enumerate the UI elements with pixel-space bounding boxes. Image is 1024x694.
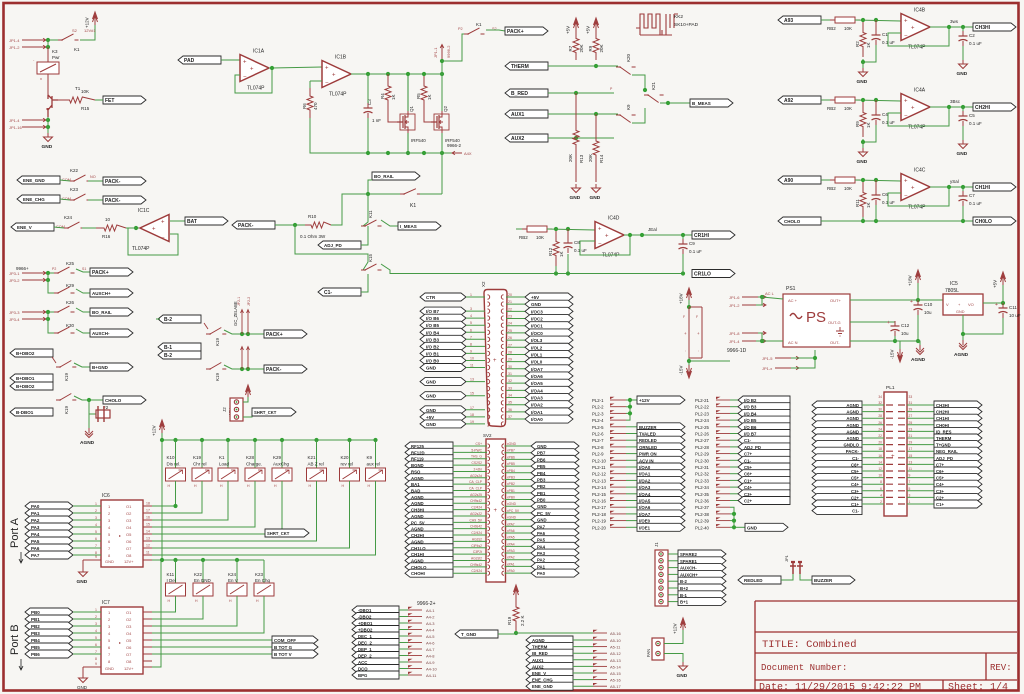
- net flag BA1 SV2 left row 7: [405, 480, 453, 488]
- svg-text:25: 25: [508, 329, 512, 333]
- svg-text:H: H: [368, 484, 371, 488]
- net flag ENE_V bottom list: [526, 669, 573, 677]
- svg-text:+: +: [494, 508, 498, 514]
- net flag ADJ_PD mid: [318, 241, 361, 249]
- svg-text:7: 7: [95, 544, 97, 548]
- net flag PA4: [25, 530, 73, 538]
- svg-text:C1-: C1-: [324, 290, 332, 296]
- net flag I/OA7 X2 right row 11: [506, 368, 525, 370]
- svg-text:SK10+PAD: SK10+PAD: [674, 22, 699, 28]
- wire input node: [821, 99, 830, 101]
- svg-text:K21: K21: [651, 81, 656, 90]
- svg-text:4: 4: [95, 523, 97, 527]
- svg-text:COM_OFF: COM_OFF: [274, 638, 296, 643]
- net flag I/OA3 PL2 col1: [626, 486, 637, 488]
- svg-text:A4-7: A4-7: [426, 647, 435, 652]
- svg-text:R6: R6: [302, 103, 307, 109]
- pin stub JP1-2: [22, 45, 46, 49]
- svg-text:PB3: PB3: [31, 631, 40, 636]
- svg-text:SPARE1: SPARE1: [680, 559, 697, 564]
- svg-text:B TOT V: B TOT V: [274, 652, 292, 657]
- ground GND under R13: [572, 184, 581, 193]
- svg-text:PACK+: PACK+: [92, 270, 109, 276]
- pin stub JP5-9: [593, 685, 607, 687]
- supply +12V top-left: [93, 12, 98, 25]
- net flag BGND SV2 left row 4: [405, 461, 453, 469]
- svg-text:5: 5: [95, 636, 97, 640]
- svg-text:0.1 uF: 0.1 uF: [574, 248, 587, 253]
- IC7 long output wires to flags: [152, 639, 272, 641]
- box resistor RB2 10K ch A92: [835, 97, 855, 103]
- svg-text:JP1-4: JP1-4: [729, 339, 740, 344]
- net flag I/O B4 PL2 col2: [730, 412, 738, 414]
- net flag I/OA3 X2 right row 15: [506, 397, 525, 399]
- wire R11 C6 to rail: [862, 217, 864, 221]
- wire R10 to K11: [331, 194, 368, 225]
- switch K1 top: [464, 28, 485, 34]
- svg-text:8: 8: [95, 657, 97, 661]
- svg-text:PA3: PA3: [31, 525, 40, 530]
- svg-text:En Chg: En Chg: [255, 578, 271, 583]
- net flag CH0LO right: [973, 217, 1016, 225]
- net flag I/O B6 X2 left row 4: [420, 314, 466, 322]
- net flag BUZZER PL2 col1: [626, 426, 637, 428]
- svg-text:O2: O2: [126, 511, 132, 516]
- svg-text:9966-1D: 9966-1D: [727, 348, 747, 354]
- net flag ENE_CHG bottom list: [526, 676, 573, 684]
- net flag C2+ PL1 right row 15: [907, 496, 934, 498]
- net flag B-2 J1: [668, 580, 678, 582]
- net flag GND X2 right row 2: [506, 303, 525, 305]
- bottom rail of driver stage: [310, 118, 452, 153]
- svg-text:AG2s25: AG2s25: [470, 493, 482, 497]
- svg-text:IC7: IC7: [102, 600, 110, 606]
- capacitor C4 0.1uF: [875, 110, 877, 115]
- svg-text:3Bsc: 3Bsc: [950, 99, 961, 104]
- resistor R12: [553, 231, 559, 266]
- svg-text:7: 7: [909, 480, 911, 484]
- net flag C6+ PL2 col2: [730, 473, 738, 475]
- capacitor C11 10uF: [1002, 303, 1004, 308]
- relay coil K20 rev rel: [347, 438, 351, 442]
- wire ACC to stub: [399, 661, 408, 663]
- svg-text:O3: O3: [126, 624, 132, 629]
- IC6 output pin 7: [143, 547, 152, 549]
- net flag PB2 SV2 right row 7: [505, 485, 532, 487]
- svg-text:P2: P2: [52, 267, 56, 271]
- net flag I/O B7 PL2 col2: [730, 433, 738, 435]
- svg-text:-15V: -15V: [890, 349, 895, 359]
- wire ACN to PS1: [762, 340, 783, 342]
- svg-text:I/OC1: I/OC1: [531, 324, 543, 329]
- net flag PA7: [25, 551, 73, 559]
- wire K1 row: [368, 193, 400, 195]
- svg-text:1 nF: 1 nF: [372, 118, 381, 123]
- svg-text:CR1HI: CR1HI: [694, 233, 710, 239]
- net flag I/OA4 X2 right row 14: [506, 389, 525, 391]
- svg-text:CA_CLP: CA_CLP: [469, 480, 483, 484]
- box resistor RB2 10K ch A93: [835, 17, 855, 23]
- wire input node: [821, 19, 830, 21]
- svg-text:14: 14: [146, 530, 150, 534]
- svg-text:RB2: RB2: [519, 235, 528, 240]
- title block outline: [755, 601, 1017, 691]
- svg-text:−: −: [243, 75, 247, 81]
- svg-text:H: H: [256, 599, 259, 603]
- net flag C7+ PL2 col2: [730, 453, 738, 455]
- capacitor C5 0.1uF: [962, 111, 964, 116]
- net flag RF125 SV2 left row 1: [405, 442, 453, 450]
- net flag I/O B2 PL2 col2: [730, 399, 738, 401]
- net flag COM_OFF: [272, 636, 318, 644]
- wire +18V down: [688, 300, 690, 307]
- wire DEC_1 to stub: [399, 635, 408, 637]
- svg-text:xPB4: xPB4: [507, 469, 515, 473]
- svg-text:13: 13: [909, 460, 913, 464]
- vertical to K11 contact: [363, 194, 368, 226]
- svg-text:PACK+: PACK+: [266, 332, 283, 338]
- svg-text:I/O B6: I/O B6: [426, 316, 440, 321]
- wire group2: [48, 312, 58, 333]
- svg-text:JP1-5: JP1-5: [762, 356, 773, 361]
- svg-text:FET: FET: [105, 98, 114, 104]
- svg-text:PAD: PAD: [184, 58, 195, 64]
- net flag C1+ PL1 left row 16: [812, 500, 862, 508]
- transistor Q2 IRF540: [431, 115, 439, 129]
- svg-text:T1: T1: [75, 86, 81, 91]
- net flag I/OA4 PL2 col1: [626, 493, 637, 495]
- svg-text:X2: X2: [481, 281, 486, 287]
- svg-text:12: 12: [146, 544, 150, 548]
- heatsink KK2: [636, 14, 678, 35]
- svg-text:PL2-37: PL2-37: [695, 505, 709, 510]
- svg-text:THERM: THERM: [511, 64, 529, 70]
- svg-text:PL2-8: PL2-8: [592, 445, 604, 450]
- svg-text:PACK+: PACK+: [507, 29, 524, 35]
- net flag PA5: [25, 537, 73, 545]
- net flag PA5 SV2 right row 15: [505, 539, 532, 541]
- svg-text:AG2st2: AG2st2: [471, 556, 482, 560]
- svg-text:xPA1: xPA1: [507, 562, 515, 566]
- net flag BAT: [185, 217, 228, 225]
- svg-text:3ws: 3ws: [950, 19, 959, 24]
- wire stub join: [48, 39, 60, 41]
- svg-text:18: 18: [146, 502, 150, 506]
- switch K30: [54, 327, 75, 333]
- net flag A92: [778, 96, 821, 104]
- svg-text:O5: O5: [126, 532, 132, 537]
- svg-text:+: +: [598, 227, 602, 233]
- svg-text:VO: VO: [968, 302, 974, 307]
- switch K15 lower: [361, 264, 382, 270]
- svg-text:B_RED: B_RED: [511, 91, 528, 97]
- svg-text:PACK-: PACK-: [266, 367, 282, 373]
- svg-text:xPB2: xPB2: [507, 482, 515, 486]
- vertical bus from K1 down through driver: [441, 61, 443, 111]
- svg-text:CIP4s2: CIP4s2: [471, 544, 482, 548]
- pin stub JP5-2: [593, 639, 607, 641]
- svg-text:I/OE1: I/OE1: [639, 525, 651, 530]
- ground GND channel input: [859, 68, 868, 77]
- relay coil K9 aux rel: [373, 438, 377, 442]
- net flag BO_RAIL mid: [372, 172, 420, 180]
- net flag I/OA5 PL2 col1: [626, 500, 637, 502]
- net flag CH3HI PL1 right row 1: [907, 404, 934, 406]
- net flag C2+ PL1 left row 15: [812, 493, 862, 501]
- svg-text:CH2HI: CH2HI: [975, 105, 991, 111]
- net flag PA3: [25, 523, 73, 531]
- svg-text:PL2-22: PL2-22: [695, 405, 709, 410]
- supply +18V left of PS1: [687, 288, 692, 301]
- IC6 output pin 2: [143, 512, 152, 514]
- wire K1 to vertical bus: [420, 193, 442, 195]
- relay coil K23 En Chg: [263, 560, 265, 583]
- net flag AGND SV2 left row 16: [405, 537, 453, 545]
- svg-text:12V+: 12V+: [124, 666, 134, 671]
- svg-text:R9: R9: [588, 45, 593, 51]
- net flag I/OC0 X2 right row 6: [506, 332, 525, 334]
- supply +12V relay bus: [160, 420, 165, 433]
- svg-text:JP3-3: JP3-3: [9, 310, 20, 315]
- wire PAD to IC1A: [221, 60, 240, 61]
- svg-text:C2/424: C2/424: [471, 531, 482, 535]
- svg-text:PB2: PB2: [31, 624, 40, 629]
- net flag I/O B5 X2 left row 5: [420, 321, 466, 329]
- svg-text:PL2-32: PL2-32: [695, 472, 709, 477]
- pin stub JP3-1: [22, 271, 46, 275]
- switch K19 mid upper: [206, 328, 226, 335]
- svg-text:12: 12: [878, 467, 882, 471]
- op-amp IC4D: [595, 222, 624, 249]
- svg-text:PL2-7: PL2-7: [592, 438, 604, 443]
- pin stub JP3-2: [22, 278, 46, 282]
- svg-text:+5V: +5V: [566, 26, 571, 34]
- net flag -DBO1 DBO list: [352, 606, 399, 614]
- resistor R16 10: [96, 225, 126, 231]
- svg-text:PL2-16: PL2-16: [592, 499, 606, 504]
- IC6 12V+ pin to bus: [143, 559, 152, 561]
- svg-text:GND: GND: [857, 79, 868, 85]
- svg-text:A5-10: A5-10: [610, 638, 621, 643]
- svg-text:JP1-8: JP1-8: [729, 331, 740, 336]
- svg-text:ENE_V: ENE_V: [17, 225, 32, 230]
- relay coil K1 Load: [226, 438, 230, 442]
- svg-text:I/OA0: I/OA0: [531, 417, 543, 422]
- svg-text:3: 3: [470, 307, 472, 311]
- net flag I/OA0 PL2 col1: [626, 466, 637, 468]
- net flag AGND SV2 left row 6: [405, 474, 453, 482]
- relay coil K29 AuxChg: [280, 438, 284, 442]
- svg-text:P2: P2: [458, 27, 463, 31]
- cap and resistor to ground: [863, 125, 876, 142]
- pin stub JP3-4: [22, 317, 46, 321]
- output wire: [930, 186, 973, 188]
- net flag DEC_2 DBO list: [352, 639, 399, 647]
- svg-text:+5V: +5V: [531, 295, 539, 300]
- net flag PAD: [178, 56, 221, 64]
- svg-text:+: +: [250, 67, 254, 73]
- svg-text:GND: GND: [42, 144, 53, 150]
- net flag PB6 SV2 right row 3: [505, 458, 532, 460]
- fuse F2: [89, 400, 96, 414]
- svg-text:GND: GND: [426, 394, 437, 399]
- capacitor C9 0.1uF: [682, 239, 684, 244]
- svg-text:xPB3: xPB3: [507, 475, 515, 479]
- svg-text:J1: J1: [654, 542, 659, 547]
- svg-text:K22: K22: [194, 572, 203, 577]
- svg-text:17: 17: [146, 509, 150, 513]
- svg-text:21: 21: [508, 300, 512, 304]
- pin stub JP1-2 AC: [742, 303, 766, 307]
- svg-text:PL2-36: PL2-36: [695, 499, 709, 504]
- svg-text:PA1: PA1: [31, 511, 40, 516]
- svg-text:0.1 uF: 0.1 uF: [882, 40, 895, 45]
- net flag T_GND: [455, 630, 498, 638]
- switch K21 select: [632, 75, 645, 90]
- net flag I/OE0 PL2 col1: [626, 520, 637, 522]
- net flag B+1 J1: [668, 601, 678, 603]
- svg-text:27: 27: [909, 414, 913, 418]
- wire THERM row: [548, 65, 618, 67]
- net flag REDLED bottom: [738, 576, 781, 584]
- svg-text:CH3HI: CH3HI: [975, 25, 991, 31]
- svg-text:+5V: +5V: [426, 415, 434, 420]
- IC6 output pin 3: [143, 519, 152, 521]
- svg-text:JP3-2: JP3-2: [9, 278, 20, 283]
- net flag GND X2 left row 15: [420, 392, 466, 400]
- supply +12V FAN: [681, 618, 686, 631]
- capacitor C10 10u: [917, 300, 919, 305]
- IC7 output pin 7: [143, 653, 152, 655]
- pin stub JP3-3: [22, 310, 46, 314]
- resistor R4 1K: [385, 74, 391, 112]
- net flag C5+ PL1 left row 11: [812, 467, 862, 475]
- net flag C5+ PL1 right row 12: [907, 477, 934, 479]
- net flag I/OL1 X2 right row 9: [506, 353, 525, 355]
- svg-text:36: 36: [508, 408, 512, 412]
- net flag AUXCH+: [90, 289, 133, 297]
- net flag C1- mid: [318, 288, 361, 296]
- svg-text:GND: GND: [677, 673, 688, 679]
- svg-text:9966-2: 9966-2: [446, 45, 451, 58]
- svg-text:JP1-1: JP1-1: [433, 47, 438, 58]
- net flag BPG DBO list: [352, 671, 399, 679]
- wire K15 to long rail: [381, 264, 512, 274]
- wire IC1B output rail: [351, 73, 442, 75]
- svg-text:CR1LO: CR1LO: [694, 272, 711, 278]
- net flag I/OA1 X2 right row 17: [506, 411, 525, 413]
- svg-text:xPA7: xPA7: [507, 522, 515, 526]
- wire PB0 to IC7: [73, 611, 101, 613]
- svg-text:TL074P: TL074P: [329, 92, 347, 98]
- net flag PB5: [25, 643, 73, 651]
- svg-text:O8: O8: [126, 659, 132, 664]
- net flag CR1LO: [692, 270, 735, 278]
- svg-text:A5-16: A5-16: [610, 678, 621, 683]
- output wire IC4D: [624, 234, 692, 236]
- IC5 ground wire: [963, 315, 1003, 334]
- svg-text:A5-17: A5-17: [610, 684, 621, 689]
- net flag PACK- row2: [103, 196, 146, 204]
- svg-text:xPA5: xPA5: [507, 536, 515, 540]
- svg-text:K21: K21: [308, 455, 317, 460]
- ground AGND under F2: [85, 428, 93, 438]
- svg-text:K15: K15: [368, 253, 373, 262]
- wire PB4 to IC7: [73, 639, 101, 641]
- net flag ACC DBO list: [352, 658, 399, 666]
- stub pair lower: [241, 347, 243, 369]
- ground AGND under IC5: [962, 334, 964, 340]
- relay row2 outputs to IC7 staircase: [152, 596, 176, 612]
- svg-text:O5: O5: [126, 638, 132, 643]
- svg-text:BUZZER: BUZZER: [814, 578, 833, 583]
- svg-text:TL074P: TL074P: [908, 205, 926, 211]
- svg-text:+: +: [493, 358, 497, 364]
- svg-text:AG2s2d: AG2s2d: [470, 474, 482, 478]
- net flag THERM bottom list: [526, 643, 573, 651]
- svg-text:IC6: IC6: [102, 493, 110, 499]
- net flag CH2HI: [973, 103, 1016, 111]
- net flag SPARE1 J1: [668, 560, 678, 562]
- op-amp IC4C: [901, 174, 930, 201]
- svg-text:37: 37: [508, 415, 512, 419]
- pin stub JP5-3: [593, 646, 607, 648]
- resistor R8 20K: [593, 31, 599, 60]
- net flag GND SV2 right row 12: [505, 519, 532, 521]
- wire PB2 to IC7: [73, 625, 101, 627]
- svg-text:GND: GND: [956, 310, 965, 314]
- net flag PA4 SV2 right row 16: [505, 545, 532, 547]
- net flag PB6: [25, 650, 73, 658]
- svg-text:+: +: [243, 60, 247, 66]
- svg-text:C9: C9: [689, 241, 695, 246]
- svg-text:I/O B1: I/O B1: [426, 351, 440, 356]
- svg-text:H: H: [220, 484, 223, 488]
- svg-text:16: 16: [146, 516, 150, 520]
- svg-text:0.1 uF: 0.1 uF: [882, 120, 895, 125]
- svg-text:AGND: AGND: [911, 357, 926, 363]
- svg-text:A90: A90: [784, 178, 793, 184]
- net flag B+2 J1: [668, 587, 678, 589]
- svg-text:NO: NO: [90, 175, 96, 179]
- net flag AUX1: [505, 110, 548, 118]
- svg-text:O6: O6: [126, 645, 132, 650]
- svg-text:7: 7: [470, 335, 472, 339]
- svg-text:B+GND: B+GND: [92, 365, 109, 370]
- svg-text:9: 9: [909, 474, 911, 478]
- svg-text:JP3-4: JP3-4: [9, 317, 20, 322]
- net flag CH1HI: [973, 183, 1016, 191]
- net flag FET: [103, 96, 146, 104]
- net flag PACK- row1: [103, 177, 146, 185]
- net flag ACV IN PL2 col1: [626, 459, 637, 461]
- svg-text:B+1: B+1: [680, 600, 689, 605]
- svg-text:AC +: AC +: [788, 298, 798, 303]
- svg-text:GND: GND: [77, 579, 88, 585]
- net flag PA6 SV2 right row 14: [505, 532, 532, 534]
- switch K9 aux: [616, 115, 636, 123]
- svg-text:17: 17: [470, 406, 474, 410]
- svg-text:FAN: FAN: [646, 649, 651, 657]
- svg-text:+5V: +5V: [586, 26, 591, 34]
- net flag AGND bottom list: [526, 636, 573, 644]
- svg-text:I/O B4: I/O B4: [426, 330, 440, 335]
- svg-text:4: 4: [470, 314, 472, 318]
- svg-text:xPA0: xPA0: [507, 569, 515, 573]
- svg-text:+: +: [697, 331, 700, 336]
- svg-text:ENE_CHG: ENE_CHG: [23, 197, 45, 202]
- net flag CH0HI PL1 right row 4: [907, 424, 934, 426]
